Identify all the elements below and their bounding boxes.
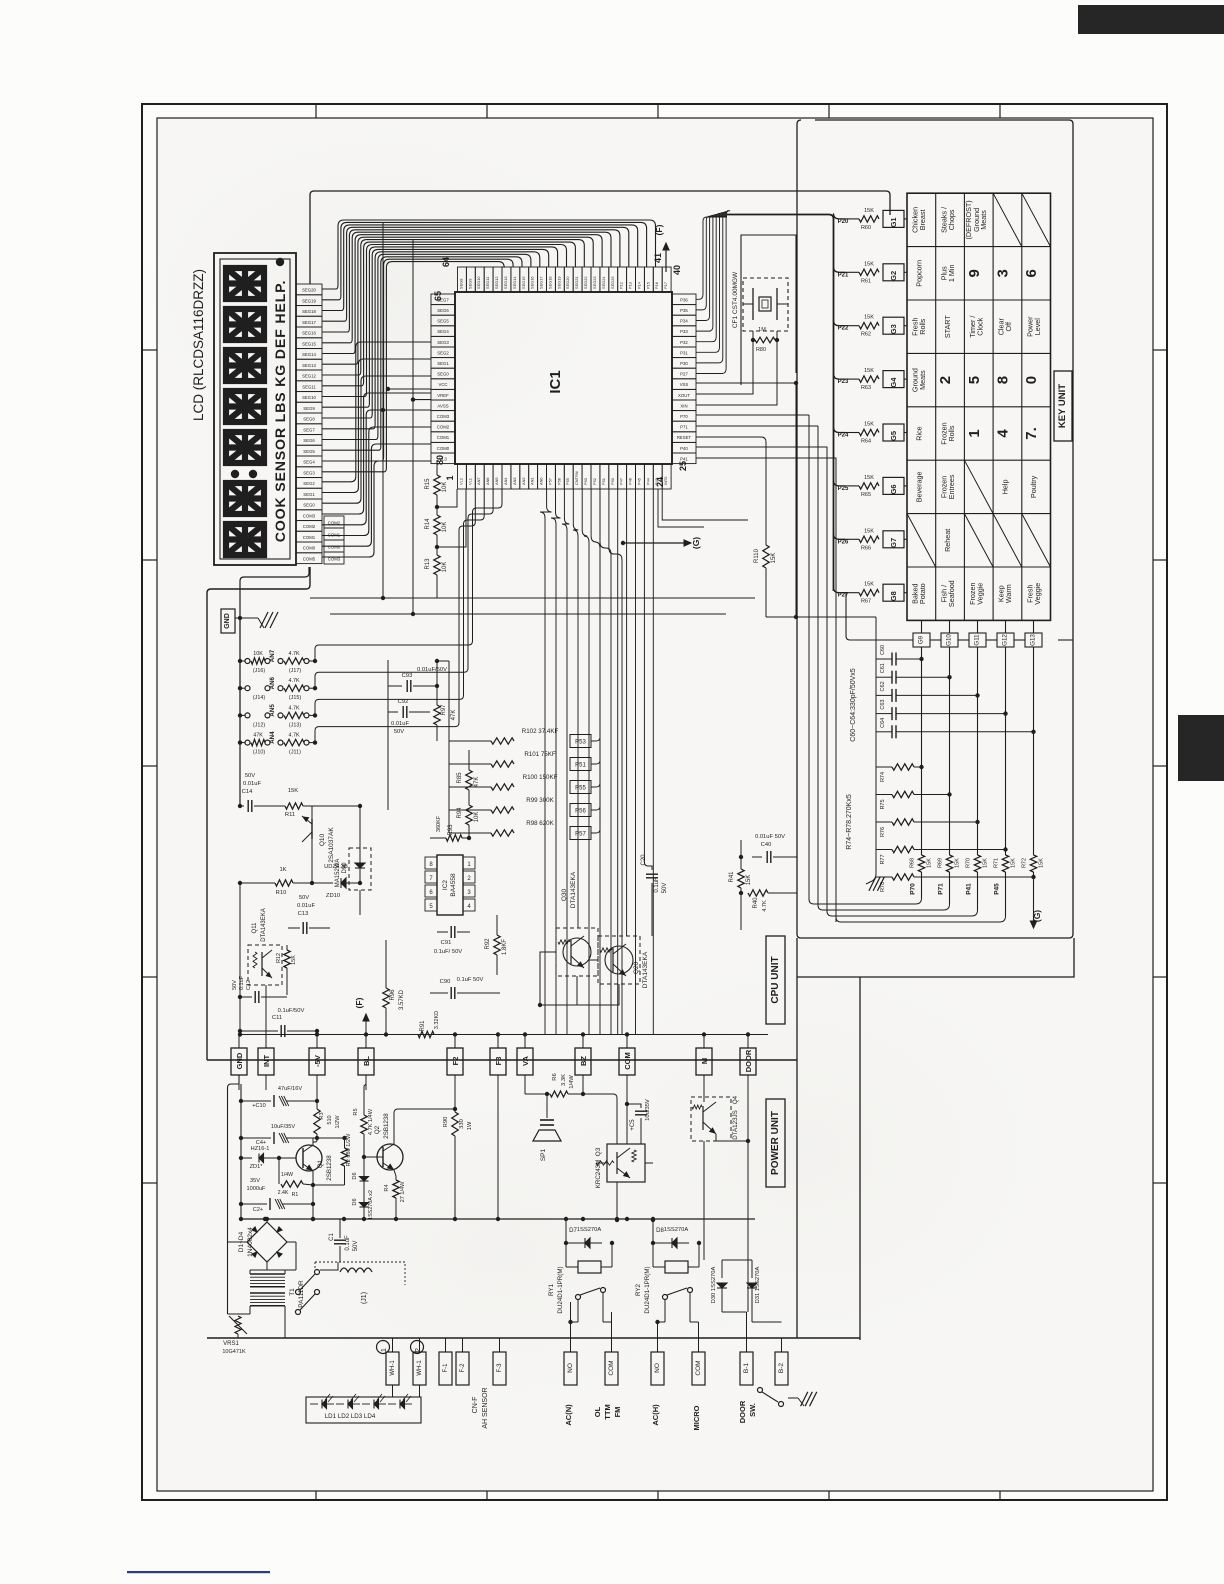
- svg-text:COM0: COM0: [437, 446, 450, 451]
- svg-text:R11: R11: [285, 812, 295, 818]
- svg-text:15K: 15K: [864, 422, 874, 428]
- wire GND to ground: [235, 617, 258, 619]
- svg-text:3: 3: [995, 269, 1012, 277]
- key block common bus to ground: [875, 659, 877, 874]
- svg-text:F-1: F-1: [443, 1363, 449, 1373]
- key column return wires to risers: [809, 415, 922, 904]
- svg-text:4.7K: 4.7K: [762, 900, 768, 912]
- svg-text:R70: R70: [966, 858, 972, 868]
- diode D31 1SS270A: [751, 1260, 753, 1278]
- svg-text:Q30: Q30: [561, 888, 568, 901]
- transistor Q20 DTA143EKA: [598, 936, 640, 984]
- svg-text:Reheat: Reheat: [943, 529, 952, 552]
- svg-text:50V: 50V: [394, 729, 404, 735]
- svg-text:D7: D7: [569, 1228, 577, 1234]
- svg-text:P23: P23: [838, 379, 849, 385]
- capacitor C20 0.1uF 50V: [651, 883, 653, 910]
- svg-text:R96: R96: [390, 989, 396, 1001]
- svg-text:Meats: Meats: [979, 210, 988, 230]
- svg-text:25: 25: [678, 461, 688, 471]
- svg-text:4.7K: 4.7K: [288, 705, 299, 711]
- power unit label box: [766, 1099, 785, 1187]
- svg-text:AN6: AN6: [485, 477, 490, 485]
- svg-text:P45: P45: [994, 883, 1001, 895]
- resonator CF1 symbol: [752, 288, 754, 320]
- svg-text:SEG5: SEG5: [437, 319, 449, 324]
- svg-text:SEG10: SEG10: [302, 395, 316, 400]
- svg-text:R40: R40: [753, 897, 759, 909]
- svg-text:G4: G4: [889, 377, 898, 388]
- svg-text:IC1: IC1: [547, 370, 564, 393]
- RY1 wires: [565, 1243, 567, 1267]
- svg-text:0.01uF: 0.01uF: [391, 721, 410, 727]
- door switch: [758, 1388, 763, 1393]
- svg-text:P47: P47: [619, 478, 624, 485]
- connector WH-1 no1: [386, 1352, 399, 1385]
- terminal -5V: [309, 1048, 325, 1075]
- svg-text:(G): (G): [691, 537, 701, 549]
- svg-text:R41: R41: [729, 871, 735, 883]
- svg-text:27 1/4W: 27 1/4W: [400, 1181, 406, 1203]
- svg-text:P30: P30: [680, 361, 688, 366]
- terminal M: [696, 1048, 712, 1075]
- transistor Q11 DTA143EKA dashed: [248, 945, 282, 985]
- key cell blank diagonal r1c5: [1022, 193, 1051, 246]
- wire F3 riser: [497, 1075, 499, 1219]
- capacitor C93 0.01uF/50V: [388, 685, 402, 687]
- svg-text:D30 1SS270A: D30 1SS270A: [711, 1267, 717, 1304]
- key G9-G13 link line: [846, 593, 913, 640]
- svg-text:SEG21: SEG21: [574, 276, 579, 289]
- svg-text:(G): (G): [1032, 910, 1042, 922]
- svg-text:P56: P56: [556, 478, 561, 485]
- svg-text:4.7K: 4.7K: [288, 651, 299, 657]
- LCD 7-seg digits 88:8888.: [226, 268, 264, 299]
- svg-text:Beverage: Beverage: [914, 472, 923, 503]
- capacitor C12 0.1uF 50V: [240, 996, 252, 998]
- svg-text:1SS270A: 1SS270A: [577, 1227, 602, 1233]
- COM line down: [626, 1075, 628, 1144]
- svg-text:P53: P53: [583, 478, 588, 485]
- svg-text:SEG2: SEG2: [437, 350, 449, 355]
- svg-text:SEG1: SEG1: [303, 492, 315, 497]
- svg-text:SEG5: SEG5: [303, 449, 315, 454]
- svg-text:P34: P34: [680, 319, 688, 324]
- relay RY1 contact: [576, 1295, 581, 1300]
- svg-text:10uF/35V: 10uF/35V: [271, 1124, 296, 1130]
- connector COM relay2: [692, 1352, 705, 1385]
- svg-text:P46: P46: [628, 478, 633, 485]
- svg-text:P27: P27: [680, 372, 688, 377]
- cpu unit boundary left: [207, 567, 310, 1060]
- svg-text:SEG25: SEG25: [610, 276, 615, 289]
- ground door: [788, 1397, 798, 1399]
- LCD display outline: [214, 253, 296, 565]
- svg-text:MICRO: MICRO: [692, 1405, 701, 1430]
- svg-text:15K: 15K: [864, 475, 874, 481]
- svg-text:R65: R65: [861, 492, 871, 498]
- LCD pin boxes SEG14-SEG0 COM: [296, 284, 322, 295]
- svg-text:COM: COM: [623, 1052, 632, 1070]
- svg-text:C92: C92: [398, 699, 409, 705]
- resistor R14 10K: [435, 505, 439, 509]
- svg-text:Rolls: Rolls: [947, 425, 956, 441]
- svg-text:Popcorn: Popcorn: [914, 260, 923, 287]
- svg-text:AN5: AN5: [494, 477, 499, 485]
- svg-text:P22: P22: [838, 326, 849, 332]
- svg-text:R67: R67: [861, 599, 871, 605]
- svg-text:(J12): (J12): [253, 722, 265, 728]
- svg-text:47K: 47K: [474, 777, 480, 788]
- svg-text:(J17): (J17): [289, 668, 301, 674]
- terminal INT: [258, 1048, 274, 1075]
- LCD COM aux boxes: [324, 516, 344, 528]
- terminal VA: [517, 1048, 533, 1075]
- svg-text:R90: R90: [443, 1117, 449, 1128]
- svg-text:Veggie: Veggie: [976, 583, 985, 605]
- svg-text:2SA1037AK: 2SA1037AK: [328, 827, 335, 863]
- bridge rectifier D1-D4 1N4002x4: [247, 1222, 287, 1262]
- svg-text:P55: P55: [565, 478, 570, 485]
- svg-text:BL: BL: [362, 1056, 371, 1066]
- wire BZ to Q3: [583, 1094, 617, 1144]
- diode D30 1SS270A: [721, 1260, 723, 1278]
- wire Q30 Q20 connections: [540, 952, 577, 1005]
- svg-text:P13: P13: [628, 282, 633, 289]
- svg-text:SEG15: SEG15: [302, 341, 316, 346]
- svg-text:R97: R97: [441, 704, 447, 716]
- svg-text:15K: 15K: [746, 875, 752, 886]
- wire XOUT to CF1: [696, 331, 753, 394]
- svg-text:R102 37.4KF: R102 37.4KF: [522, 728, 559, 735]
- terminal BZ: [575, 1048, 591, 1075]
- svg-text:0.1uF: 0.1uF: [654, 877, 660, 893]
- svg-text:R101 75KF: R101 75KF: [524, 751, 556, 758]
- resistor R2 680 1/2W: [344, 1138, 346, 1148]
- resistor R40 4.7K: [740, 888, 742, 893]
- svg-text:SEG6: SEG6: [303, 438, 315, 443]
- svg-text:0.1uF/50V: 0.1uF/50V: [278, 1008, 305, 1014]
- svg-text:LCD (RLCDSA116DRZZ): LCD (RLCDSA116DRZZ): [191, 269, 206, 421]
- svg-text:P17: P17: [663, 282, 668, 289]
- svg-text:HZ16-1: HZ16-1: [251, 1146, 270, 1152]
- svg-text:R12: R12: [276, 953, 282, 963]
- svg-text:SEG7: SEG7: [303, 427, 315, 432]
- svg-text:R61: R61: [861, 278, 871, 284]
- svg-text:P43: P43: [654, 478, 659, 485]
- svg-text:1/2W: 1/2W: [335, 1115, 341, 1129]
- svg-text:1: 1: [966, 429, 983, 437]
- svg-text:15K: 15K: [864, 528, 874, 534]
- resistors R68-R72 15K: [918, 855, 924, 872]
- svg-text:C91: C91: [441, 940, 452, 946]
- svg-text:VL1: VL1: [467, 478, 472, 485]
- svg-text:GND: GND: [235, 1052, 244, 1069]
- svg-text:P14: P14: [637, 281, 642, 289]
- svg-text:P44: P44: [645, 477, 650, 485]
- LCD colon dots: [231, 470, 239, 478]
- svg-text:R110: R110: [754, 548, 760, 563]
- svg-text:0.01uF/50V: 0.01uF/50V: [417, 667, 447, 673]
- capacitor C90 0.1uF 50V: [430, 992, 448, 994]
- svg-text:D90: D90: [342, 862, 348, 874]
- svg-text:VREF: VREF: [437, 393, 449, 398]
- svg-text:50V: 50V: [232, 980, 238, 990]
- wire P4x to door area: [662, 489, 748, 520]
- key cell blank diagonal r6c3: [964, 460, 993, 513]
- svg-text:35V: 35V: [250, 1178, 260, 1184]
- svg-text:COOK SENSOR LBS KG DEF HELP.: COOK SENSOR LBS KG DEF HELP.: [273, 280, 289, 543]
- svg-text:SEG18: SEG18: [302, 309, 316, 314]
- svg-text:SEG16: SEG16: [302, 331, 316, 336]
- svg-text:1: 1: [381, 1348, 388, 1352]
- svg-text:C61: C61: [880, 663, 886, 673]
- wires P70 P71 to risers: [696, 414, 809, 416]
- svg-text:C60~C64:330pF/50Vx5: C60~C64:330pF/50Vx5: [850, 668, 857, 741]
- resistor R96 3.57KD: [385, 940, 387, 988]
- svg-text:SEG1: SEG1: [437, 361, 449, 366]
- svg-text:SEG19: SEG19: [302, 298, 316, 303]
- svg-text:AH SENSOR: AH SENSOR: [482, 1387, 489, 1428]
- svg-text:Q11: Q11: [252, 922, 258, 934]
- svg-text:SEG8: SEG8: [303, 417, 315, 422]
- svg-text:ZD1*: ZD1*: [250, 1164, 264, 1170]
- svg-text:SEG11: SEG11: [485, 277, 490, 289]
- resistor R5 4.7K 1/4W: [365, 1075, 367, 1084]
- svg-text:GND: GND: [224, 613, 231, 629]
- svg-text:SEG20: SEG20: [565, 276, 570, 289]
- svg-text:R6: R6: [552, 1073, 558, 1080]
- arrow (G) mid: [623, 542, 688, 544]
- capacitor C5 10u/35V: [627, 1104, 641, 1108]
- key G1-G8 boxes and resistors R60-R67: [883, 210, 904, 227]
- arrow (F) top: [665, 246, 667, 272]
- svg-text:(F): (F): [354, 997, 364, 1008]
- capacitor C4 10uF/35V: [241, 1137, 271, 1139]
- svg-text:DU24D1-1PR(M): DU24D1-1PR(M): [557, 1266, 564, 1313]
- resistor R11 15K: [285, 803, 303, 809]
- terminal BL: [358, 1048, 374, 1075]
- power mid bus: [206, 1310, 208, 1338]
- svg-text:P53: P53: [575, 740, 586, 746]
- svg-text:Clock: Clock: [976, 317, 985, 335]
- svg-text:15K: 15K: [864, 261, 874, 267]
- svg-text:F-3: F-3: [497, 1363, 503, 1373]
- svg-text:SEG18: SEG18: [548, 276, 553, 289]
- svg-text:0.01uF: 0.01uF: [297, 903, 316, 909]
- svg-text:C90: C90: [440, 979, 451, 985]
- svg-text:VRS1: VRS1: [223, 1341, 239, 1347]
- svg-text:R75: R75: [880, 799, 886, 809]
- power bus 1219: [241, 1218, 755, 1220]
- svg-text:(J15): (J15): [289, 695, 301, 701]
- svg-text:R13: R13: [425, 558, 431, 570]
- wires NO COM to relays vertical: [570, 1302, 572, 1338]
- svg-text:G10: G10: [946, 634, 953, 646]
- svg-text:C13: C13: [298, 911, 309, 917]
- svg-text:C60: C60: [880, 645, 886, 655]
- svg-text:G1: G1: [889, 217, 898, 227]
- svg-text:Q20: Q20: [633, 961, 640, 974]
- svg-text:G7: G7: [889, 538, 898, 548]
- wire fanout IC1 bottom pins: [540, 489, 552, 1035]
- svg-text:COM: COM: [695, 1360, 702, 1375]
- transistor Q2 2SB1238: [377, 1144, 403, 1170]
- ground key block: [869, 877, 876, 891]
- svg-text:COM2: COM2: [303, 524, 316, 529]
- resistor R94 10K: [468, 790, 470, 805]
- svg-text:INT: INT: [262, 1055, 271, 1068]
- wire bundle LCD to IC1 left pins: [322, 461, 431, 557]
- svg-text:KRC243M: KRC243M: [595, 1160, 602, 1189]
- blue rule bottom-left: [127, 1571, 270, 1573]
- svg-text:G12: G12: [1002, 634, 1009, 646]
- svg-text:P25: P25: [838, 486, 849, 492]
- svg-text:47K: 47K: [253, 733, 263, 739]
- capacitor C92 0.01uF 50V: [388, 711, 398, 713]
- svg-text:DTA143EKA: DTA143EKA: [570, 871, 577, 908]
- svg-text:COM1: COM1: [303, 535, 316, 540]
- connector NO relay1: [564, 1352, 577, 1385]
- svg-text:B-2: B-2: [778, 1363, 785, 1374]
- svg-text:1000uF: 1000uF: [247, 1186, 267, 1192]
- svg-text:SEG14: SEG14: [302, 352, 316, 357]
- svg-text:P45: P45: [637, 478, 642, 485]
- svg-text:R3: R3: [319, 1112, 325, 1119]
- svg-text:50V: 50V: [353, 1241, 359, 1252]
- svg-text:C12: C12: [246, 980, 252, 990]
- svg-text:3.32KD: 3.32KD: [434, 1011, 440, 1029]
- bridge connections: [266, 1220, 268, 1222]
- svg-text:AN3: AN3: [512, 477, 517, 485]
- svg-text:SEG11: SEG11: [302, 384, 316, 389]
- transistor Q1 2SB1238: [296, 1145, 322, 1171]
- wire bundle LCD to IC1 top pins: [322, 220, 656, 289]
- capacitor C14 0.01uF 50V: [238, 804, 242, 808]
- arrow (F) at BL: [365, 1018, 367, 1035]
- svg-text:41: 41: [653, 253, 663, 263]
- wire vert x413: [412, 240, 414, 614]
- D30 D31 top wires: [722, 1259, 752, 1261]
- diode D90 MA152WA dashed: [349, 848, 371, 890]
- svg-text:Poultry: Poultry: [1029, 475, 1038, 498]
- svg-text:P71: P71: [680, 425, 688, 430]
- svg-text:P24: P24: [838, 433, 849, 439]
- wire AN ladder left rail: [239, 618, 241, 742]
- svg-text:AN6: AN6: [269, 676, 276, 689]
- svg-text:SEG17: SEG17: [302, 320, 316, 325]
- svg-text:P51: P51: [575, 763, 586, 769]
- svg-text:SEG3: SEG3: [303, 470, 315, 475]
- svg-text:INT0: INT0: [663, 476, 668, 485]
- svg-text:C11: C11: [272, 1015, 282, 1021]
- bus above terminals: [240, 1034, 768, 1036]
- svg-text:P70: P70: [680, 414, 688, 419]
- svg-text:VA: VA: [521, 1055, 530, 1065]
- svg-text:DOOR: DOOR: [738, 1400, 747, 1423]
- svg-text:FM: FM: [613, 1407, 622, 1418]
- led block LD1-LD4: [306, 1397, 421, 1423]
- svg-text:R76: R76: [880, 827, 886, 837]
- svg-text:P52: P52: [592, 478, 597, 485]
- wire CF1 frame loop: [741, 235, 796, 385]
- svg-text:10K: 10K: [442, 562, 448, 573]
- key cell blank diagonal r1c4: [993, 193, 1022, 246]
- svg-text:G11: G11: [974, 634, 981, 646]
- svg-text:VL2: VL2: [458, 478, 463, 485]
- wire C9x rail: [387, 660, 389, 810]
- svg-text:COM0: COM0: [303, 546, 316, 551]
- diode D7 1SS270A: [566, 1242, 602, 1244]
- relay RY2 contact: [663, 1295, 668, 1300]
- svg-text:C2+: C2+: [253, 1207, 263, 1213]
- power bottom bus: [207, 1337, 860, 1339]
- svg-text:DTA143EKA: DTA143EKA: [642, 951, 649, 988]
- svg-text:IC2: IC2: [442, 880, 449, 891]
- svg-text:SEG4: SEG4: [303, 460, 315, 465]
- key cell blank diagonal r7c3: [964, 514, 993, 567]
- svg-text:VCC: VCC: [438, 382, 447, 387]
- buzzer SP1: [546, 1094, 548, 1118]
- relay contact switches (J1): [320, 1262, 338, 1270]
- svg-text:WH-1: WH-1: [417, 1360, 423, 1376]
- svg-text:SEG8: SEG8: [458, 279, 463, 289]
- svg-text:Rolls: Rolls: [918, 318, 927, 334]
- svg-text:R60: R60: [861, 225, 871, 231]
- svg-text:40: 40: [672, 265, 682, 275]
- svg-text:SEG19: SEG19: [556, 276, 561, 289]
- svg-text:G5: G5: [889, 431, 898, 441]
- svg-text:P41: P41: [966, 883, 973, 895]
- svg-text:R71: R71: [994, 858, 1000, 868]
- svg-text:R72: R72: [1022, 858, 1028, 868]
- svg-text:SEG15: SEG15: [521, 276, 526, 289]
- svg-text:RY2: RY2: [635, 1283, 642, 1295]
- transistor Q30 DTA143EKA: [556, 928, 598, 976]
- capacitor C91 0.1uF/50V: [437, 931, 448, 933]
- svg-text:SEG17: SEG17: [539, 276, 544, 289]
- op-amp IC2 BA4558: [437, 855, 463, 915]
- svg-text:C64: C64: [880, 718, 886, 728]
- svg-text:Potato: Potato: [918, 583, 927, 604]
- wire VCC feed top: [310, 191, 890, 284]
- svg-text:NO: NO: [567, 1363, 574, 1373]
- svg-text:Warm: Warm: [1004, 584, 1013, 603]
- svg-text:R69: R69: [938, 858, 944, 868]
- wire bundle IC right pins to key bus: [696, 217, 727, 299]
- svg-text:2SB1238: 2SB1238: [326, 1155, 333, 1181]
- svg-text:C1: C1: [329, 1233, 335, 1241]
- relay RY2 DU24D1-1PR(M): [665, 1261, 688, 1273]
- Q4 wires: [703, 1075, 705, 1102]
- svg-text:(J16): (J16): [253, 668, 265, 674]
- led wires: [392, 1385, 394, 1397]
- svg-text:RESET: RESET: [677, 435, 692, 440]
- diodes D6 1SS270A x2: [360, 1177, 369, 1182]
- key cell blank diagonal r7c1: [907, 514, 936, 567]
- svg-text:15K: 15K: [1039, 858, 1045, 868]
- arrow (G) key unit: [1033, 900, 1035, 925]
- svg-text:SEG0: SEG0: [437, 372, 449, 377]
- wire Q2 emitter top: [394, 1109, 455, 1137]
- svg-text:R66: R66: [861, 545, 871, 551]
- svg-text:D6: D6: [352, 1172, 358, 1179]
- zener ZD1 HZ16-1: [241, 1157, 252, 1159]
- svg-text:15K: 15K: [955, 858, 961, 868]
- svg-text:R91: R91: [420, 1020, 426, 1032]
- relay contact wires: [285, 1291, 298, 1293]
- svg-text:C20: C20: [641, 854, 647, 866]
